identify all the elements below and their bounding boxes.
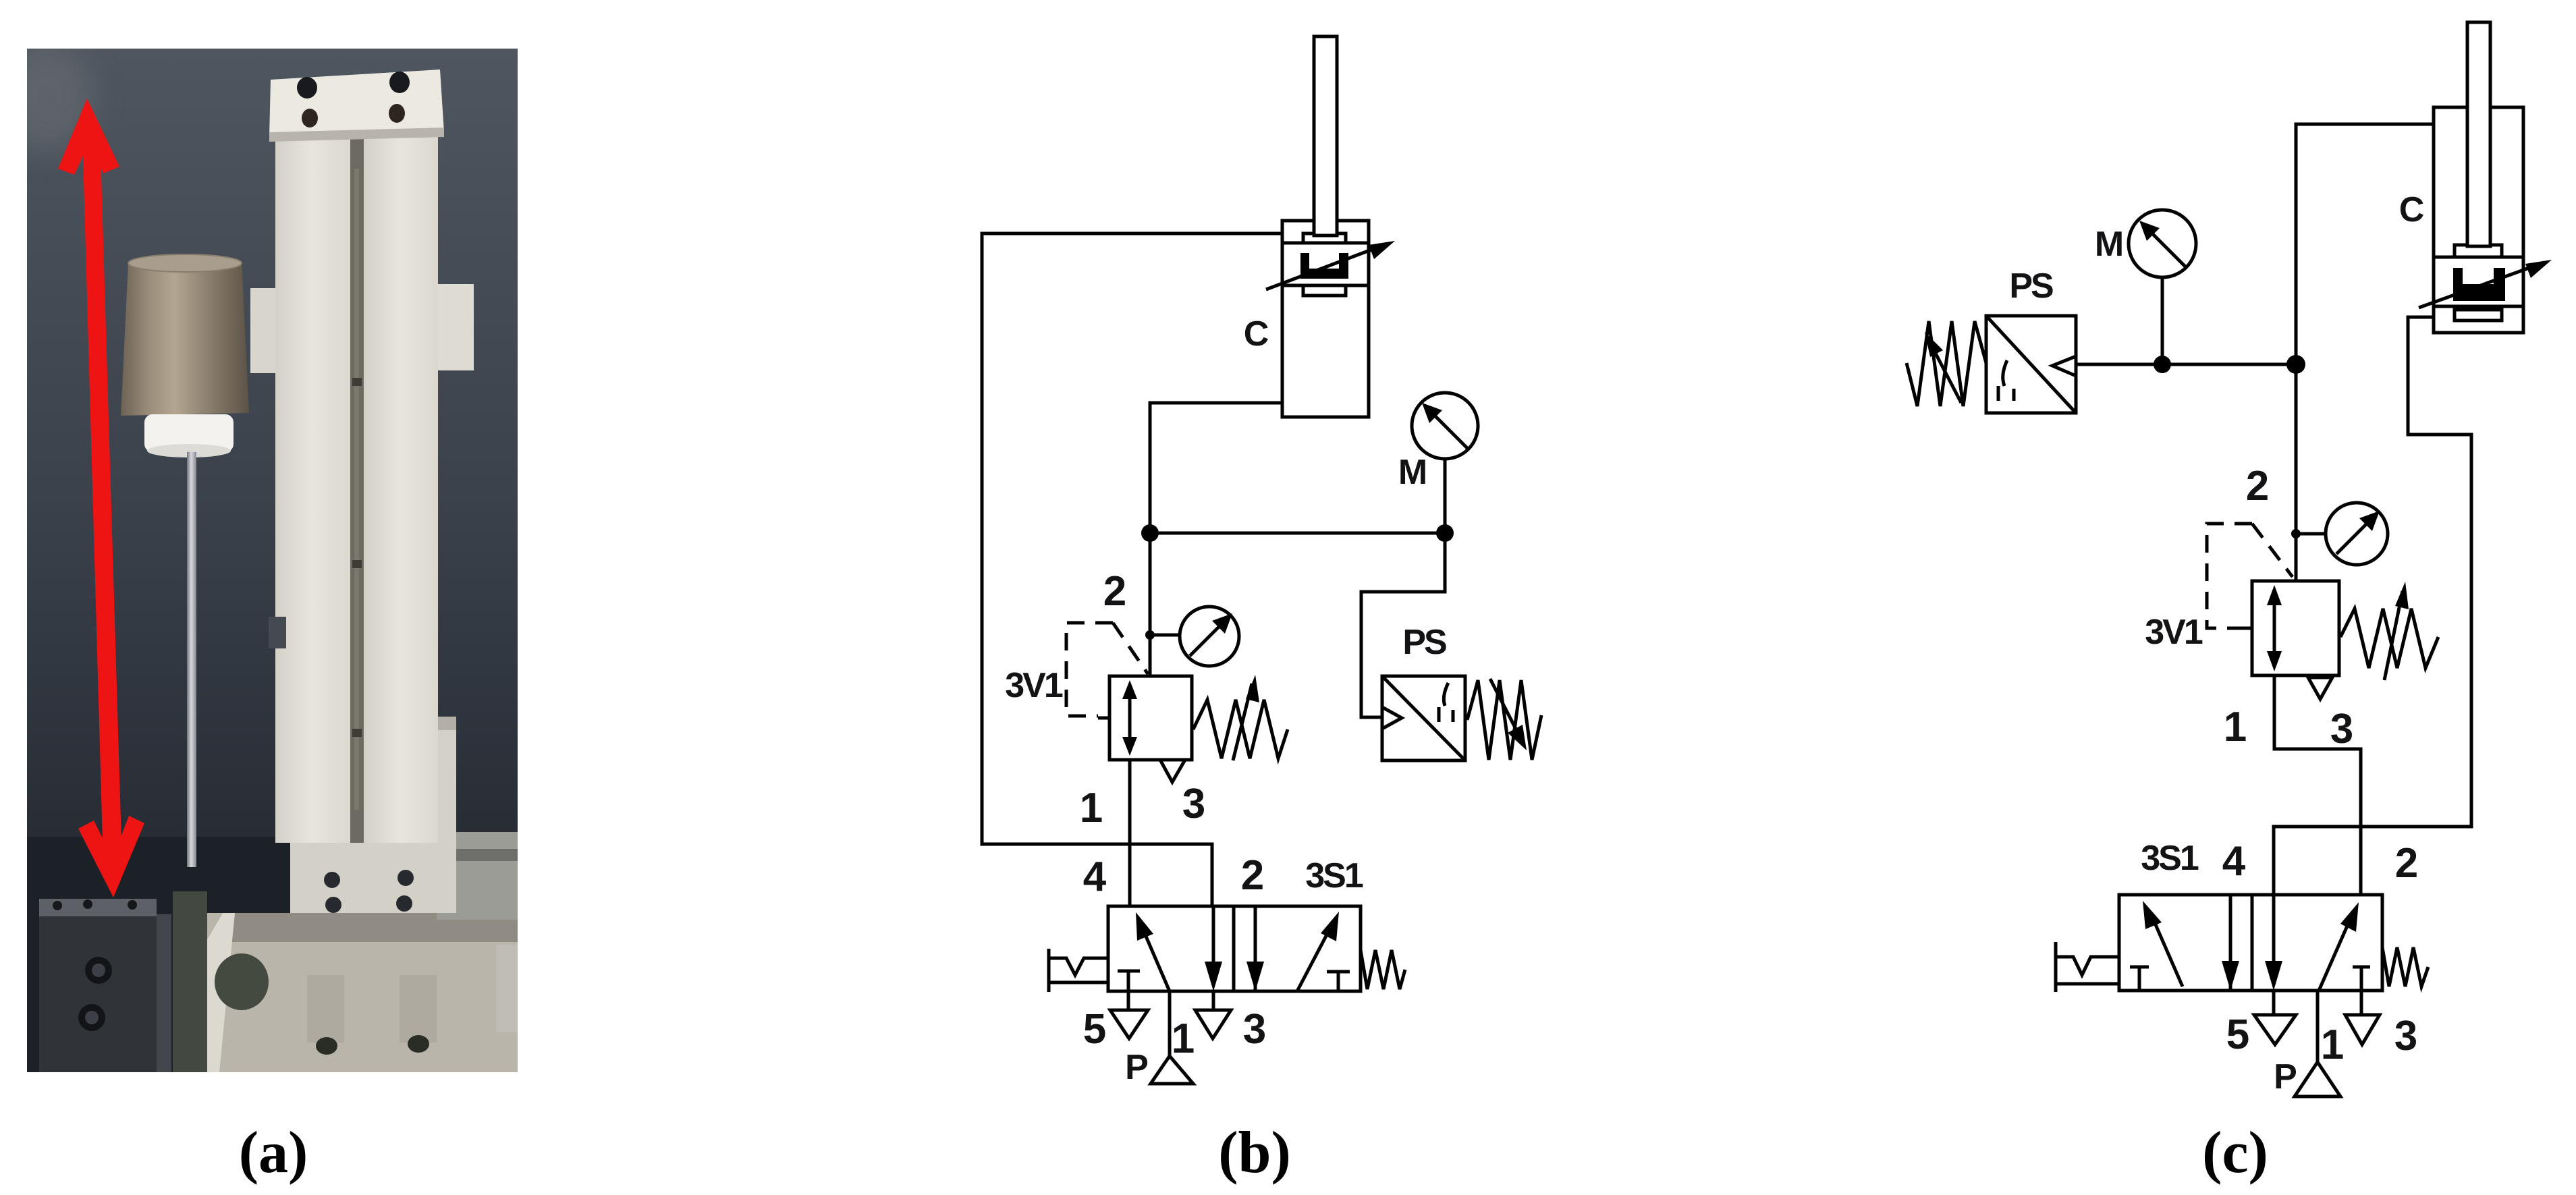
pilot stub 3V1 (b)	[1098, 717, 1109, 720]
pressure switch PS (b)	[1382, 676, 1465, 760]
svg-text:3: 3	[2394, 1013, 2417, 1059]
valve 3S1 (b) return spring	[1361, 950, 1405, 989]
svg-text:(b): (b)	[1218, 1120, 1291, 1186]
valve 3V1 (b) regulator body	[1109, 676, 1192, 760]
pilot stub 3V1 (c)	[2241, 627, 2252, 630]
valve 3S1 (c) left divider down arrow	[2222, 895, 2239, 991]
column top cap with bolts (photo)	[269, 70, 444, 142]
valve 3S1 (c) return spring	[2382, 947, 2428, 986]
valve 3S1 (b) body	[1108, 906, 1361, 991]
svg-text:3V1: 3V1	[2145, 613, 2203, 652]
svg-text:4: 4	[1083, 854, 1107, 900]
valve 3S1 (c) right box blocked port T	[2353, 967, 2370, 991]
valve 3V1 (c) spring adjust arrow	[2384, 582, 2409, 680]
valve 3V1 (b) exhaust vent triangle	[1160, 760, 1185, 782]
wire: cylinder port to 3S1 port 4 (c)	[2274, 317, 2471, 898]
cylinder C (c) adjustable cushion (black)	[2453, 268, 2505, 301]
svg-text:3V1: 3V1	[1005, 666, 1063, 705]
svg-text:5: 5	[1083, 1006, 1106, 1053]
valve 3S1 (b) right box flow arrow 1-2	[1297, 912, 1339, 991]
svg-text:1: 1	[1172, 1016, 1195, 1062]
cylinder C (c) piston rod	[2467, 22, 2490, 246]
svg-text:M: M	[1398, 453, 1425, 492]
valve 3S1 (c) manual actuator	[2056, 942, 2119, 992]
vertical column rails (photo)	[250, 132, 474, 843]
gauge at 3V1 (c)	[2326, 503, 2388, 565]
node: junction dot at 3V1 riser	[1141, 524, 1159, 542]
red double arrow (photo)	[58, 99, 144, 897]
node: junction dot at main riser (c)	[2286, 355, 2305, 374]
svg-text:3: 3	[2330, 706, 2353, 752]
svg-text:2: 2	[1103, 568, 1126, 615]
cylinder C (b) piston rod	[1314, 36, 1337, 235]
svg-text:3: 3	[1243, 1006, 1266, 1053]
svg-text:M: M	[2095, 225, 2122, 264]
gauge at 3V1 (b)	[1180, 607, 1239, 666]
column foot block (photo)	[290, 717, 456, 913]
svg-text:1: 1	[2321, 1022, 2344, 1068]
exhaust port 5 (c)	[2254, 991, 2296, 1045]
svg-text:P: P	[2274, 1057, 2296, 1096]
valve 3S1 (c) body	[2119, 895, 2382, 991]
wire: gauge M drop	[1444, 459, 1447, 533]
svg-text:3S1: 3S1	[2141, 839, 2199, 878]
valve 3S1 (b) right box down arrow	[1246, 906, 1264, 991]
valve 3S1 (b) left box flow arrow 1-4	[1136, 912, 1170, 991]
valve 3V1 (c) spring	[2340, 609, 2438, 668]
gauge M (c)	[2129, 210, 2196, 277]
valve 3S1 (c) right box flow arrow 1-2	[2319, 902, 2359, 991]
machinery block right of base (photo)	[437, 832, 518, 1032]
svg-text:2: 2	[2246, 463, 2269, 509]
node: junction dot at gauge M branch	[1436, 524, 1454, 542]
wire: 3V1 gauge tap (c)	[2296, 532, 2326, 536]
svg-text:PS: PS	[2009, 267, 2053, 306]
valve 3S1 (b) left box blocked port T	[1118, 971, 1140, 991]
node: small tap dot on riser (c)	[2291, 529, 2301, 538]
PS spring adjust arrow (c)	[1925, 332, 1961, 403]
PS spring (b)	[1467, 680, 1541, 760]
valve 3V1 (b) spring	[1193, 700, 1288, 758]
valve 3V1 (c) exhaust vent triangle	[2308, 677, 2332, 699]
svg-text:4: 4	[2222, 838, 2246, 885]
loading pin rod (photo)	[187, 452, 196, 867]
white collar under weight (photo)	[144, 414, 234, 457]
node: junction dot at gauge M (c)	[2154, 356, 2171, 373]
valve 3S1 (b) left box down arrow 2-3	[1205, 906, 1222, 991]
svg-text:2: 2	[1241, 852, 1264, 899]
svg-text:2: 2	[2395, 840, 2418, 887]
supply port 1 with P source (c)	[2295, 991, 2340, 1096]
pilot dashed box 3V1 (c)	[2207, 524, 2293, 628]
exhaust port 5 (b)	[1110, 991, 1148, 1038]
load weight cylinder (photo)	[121, 254, 249, 416]
cylinder C (b) adjustable cushion (black)	[1300, 253, 1348, 279]
valve 3S1 (c) right box down arrow 4-5	[2265, 895, 2282, 991]
valve 3S1 (b) right box blocked port T	[1327, 972, 1350, 991]
exhaust port 3 (b)	[1195, 991, 1231, 1038]
wire: 3V1 gauge tap	[1150, 634, 1180, 637]
wire: cylinder C bottom port to junction	[1150, 403, 1282, 533]
svg-text:5: 5	[2226, 1011, 2249, 1058]
svg-text:3: 3	[1182, 781, 1205, 827]
svg-text:(c): (c)	[2202, 1120, 2268, 1186]
valve 3V1 (c) internal double arrow	[2267, 585, 2282, 671]
valve 3V1 (c) regulator body	[2252, 581, 2339, 675]
pressure switch PS (c)	[1986, 316, 2076, 413]
svg-text:(a): (a)	[239, 1120, 308, 1186]
gauge M (b)	[1412, 393, 1478, 459]
pilot dashed box 3V1 (b)	[1066, 623, 1148, 716]
cylinder C (b) cushion adjust arrow	[1266, 241, 1395, 289]
dark clamp block lower-left (photo)	[39, 899, 171, 1072]
svg-text:C: C	[1244, 314, 1269, 354]
wire: PS to main riser (c)	[2076, 363, 2296, 366]
cylinder C (c) body	[2434, 107, 2523, 333]
svg-text:3S1: 3S1	[1305, 856, 1363, 895]
rig base plate (photo)	[206, 913, 518, 1072]
PS spring (c)	[1907, 321, 1986, 406]
svg-text:C: C	[2399, 190, 2424, 229]
exhaust port 3 (c)	[2345, 991, 2380, 1045]
wire: main riser to cylinder C (c)	[2296, 124, 2434, 581]
wire: cylinder C rod-side port to 3S1 port 2 (left loop)	[982, 233, 1282, 906]
PS spring adjust arrow (b)	[1490, 679, 1527, 750]
cylinder C (c) cushion adjust arrow	[2419, 260, 2552, 308]
wire: 3V1 port 1 to 3S1 port 2 (c)	[2274, 675, 2361, 898]
wire: junction down to valve 3V1 port 2	[1149, 533, 1152, 676]
wire: junction line to gauge M branch	[1150, 532, 1445, 535]
dark greenish block and roller (photo)	[173, 891, 269, 1072]
wire: branch to pressure switch PS	[1361, 533, 1445, 717]
svg-text:P: P	[1125, 1048, 1147, 1087]
valve 3V1 (b) spring adjust arrow	[1233, 675, 1259, 760]
valve 3S1 (b) manual actuator	[1049, 949, 1108, 992]
valve 3S1 (c) left box flow arrow	[2143, 901, 2183, 986]
supply port 1 with P source (b)	[1151, 991, 1193, 1084]
wire: 3V1 port 1 down to 3S1 port 4	[1128, 760, 1132, 906]
cylinder C (b) body	[1282, 221, 1369, 417]
wire: gauge M drop (c)	[2161, 277, 2164, 364]
svg-text:PS: PS	[1402, 623, 1446, 662]
valve 3V1 (b) internal double arrow	[1122, 680, 1137, 756]
node: small tap dot on 3V1 riser	[1145, 630, 1155, 640]
svg-text:1: 1	[2224, 704, 2247, 750]
valve 3S1 (c) left box blocked port T	[2130, 967, 2149, 991]
svg-text:1: 1	[1080, 785, 1103, 831]
photo background	[1, 44, 518, 1072]
